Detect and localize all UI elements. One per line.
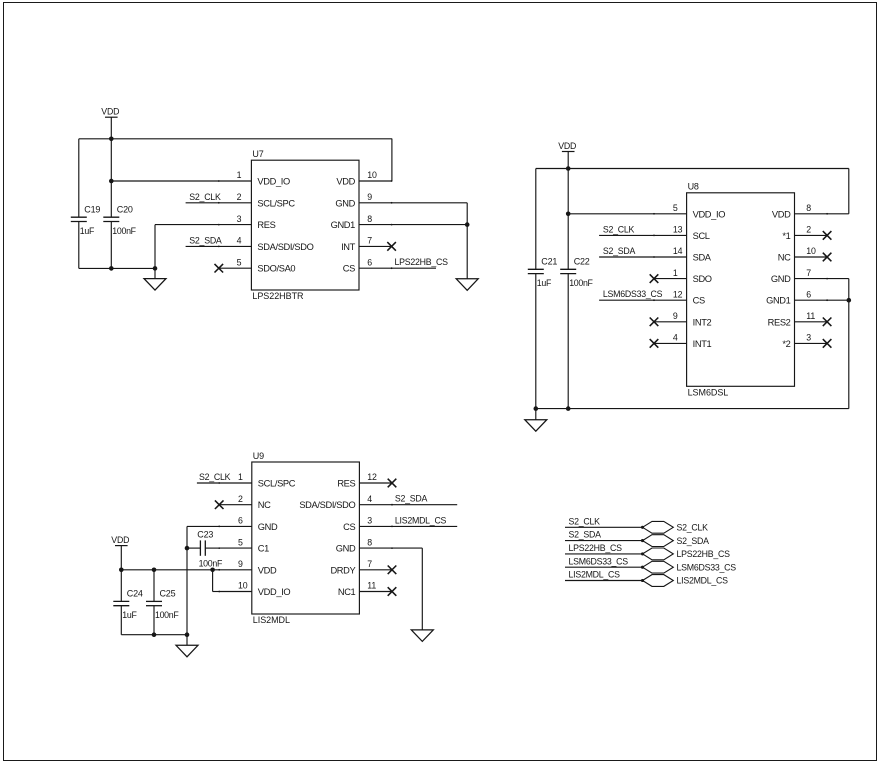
svg-text:8: 8 (367, 537, 372, 547)
no-connect X on U9 pin 2 NC (215, 500, 224, 509)
U9 pin 10 VDD_IO (218, 581, 290, 597)
wire GND bottom rail (79, 267, 155, 269)
junction GND rail / ground (185, 632, 190, 637)
svg-text:1uF: 1uF (537, 278, 552, 288)
svg-text:VDD: VDD (772, 209, 791, 219)
U7 pin 10 VDD (336, 170, 392, 186)
capacitor C19 (71, 217, 87, 221)
svg-text:11: 11 (806, 311, 815, 321)
U8 pin 5 VDD_IO (653, 203, 725, 219)
IC U9 (LIS2MDL) body (252, 462, 360, 614)
svg-text:LPS22HB_CS: LPS22HB_CS (395, 257, 449, 267)
svg-text:100nF: 100nF (199, 559, 223, 569)
junction GND rail / ground (534, 406, 539, 411)
capacitor C22 (560, 269, 576, 273)
U8 pin 2 *1 (782, 225, 827, 241)
svg-text:LIS2MDL: LIS2MDL (253, 615, 290, 625)
U8 pin 8 VDD (772, 203, 828, 219)
wire net LSM6DS33_CS (565, 566, 643, 568)
junction VDD rail / C20 branch (109, 137, 114, 142)
svg-text:LSM6DS33_CS: LSM6DS33_CS (569, 556, 629, 566)
no-connect X on U8 pin 2 *1 (823, 231, 832, 240)
capacitor C20 (103, 217, 119, 221)
svg-text:C23: C23 (197, 530, 213, 540)
junction GND rail / C25 (152, 632, 157, 637)
svg-text:100nF: 100nF (155, 610, 179, 620)
U8 pin 3 *2 (782, 333, 827, 349)
svg-text:3: 3 (367, 516, 372, 526)
svg-text:C25: C25 (160, 589, 176, 599)
svg-text:S2_CLK: S2_CLK (569, 516, 601, 526)
svg-text:SDO/SA0: SDO/SA0 (257, 264, 295, 274)
U8 pin 4 INT1 (654, 333, 712, 349)
wire C25 top lead (153, 570, 155, 602)
no-connect X on U9 pin 12 RES (388, 479, 397, 488)
svg-text:S2_CLK: S2_CLK (199, 472, 231, 482)
svg-text:INT2: INT2 (693, 317, 712, 327)
svg-text:LPS22HB_CS: LPS22HB_CS (569, 543, 623, 553)
wire C21 top lead (535, 169, 537, 270)
junction GND pins 6/7 (847, 298, 852, 303)
svg-text:7: 7 (367, 236, 372, 246)
wire net S2_CLK (565, 526, 643, 528)
svg-text:13: 13 (673, 225, 683, 235)
svg-text:12: 12 (367, 472, 377, 482)
svg-text:9: 9 (367, 192, 372, 202)
svg-text:S2_SDA: S2_SDA (395, 494, 428, 504)
off-page connector LPS22HB_CS (643, 548, 731, 560)
junction VDD_IO branch (109, 179, 114, 184)
wire net S2_CLK (197, 482, 219, 484)
svg-text:DRDY: DRDY (330, 565, 355, 575)
wire VDD stem (567, 152, 569, 169)
svg-text:LSM6DSL: LSM6DSL (688, 388, 729, 398)
svg-text:2: 2 (238, 494, 243, 504)
wire end dot (641, 539, 644, 542)
svg-text:1uF: 1uF (122, 610, 137, 620)
junction C23 left (185, 546, 190, 551)
svg-text:1: 1 (237, 170, 242, 180)
svg-text:NC: NC (258, 500, 271, 510)
svg-text:C22: C22 (574, 257, 590, 267)
wire C25 bottom lead (153, 606, 155, 635)
svg-text:8: 8 (806, 203, 811, 213)
no-connect X on U7 pin 5 (215, 264, 224, 273)
U8 pin 6 GND1 (766, 289, 828, 305)
U9 pin 7 DRDY (330, 559, 392, 575)
U7 pin 3 RES (218, 214, 276, 230)
svg-text:GND: GND (335, 198, 355, 208)
U8 pin 10 NC (778, 246, 827, 262)
svg-text:4: 4 (673, 333, 678, 343)
wire C20 top lead (110, 139, 112, 217)
wire VDD stem (110, 117, 112, 139)
junction VDD / C24 (119, 568, 124, 573)
no-connect X on U8 pin 1 SDO (650, 274, 659, 283)
wire RES drop to GND (154, 225, 156, 269)
wire C23 left lead (187, 547, 200, 549)
svg-text:SCL: SCL (693, 231, 710, 241)
wire C24 top lead (120, 570, 122, 602)
U8 pin 9 INT2 (654, 311, 712, 327)
wire net GND pin 7 (827, 278, 849, 280)
svg-text:11: 11 (367, 581, 376, 591)
svg-text:C21: C21 (541, 257, 557, 267)
wire C19 top lead (78, 139, 80, 217)
svg-text:LIS2MDL_CS: LIS2MDL_CS (395, 515, 447, 525)
U8 pin 11 RES2 (768, 311, 827, 327)
wire net LPS22HB_CS (392, 267, 436, 269)
capacitor C23 (200, 540, 205, 555)
U7 pin 9 GND (335, 192, 392, 208)
wire net GND pin 8 (392, 547, 422, 549)
no-connect X on U7 pin 7 INT (387, 242, 396, 251)
wire net S2_CLK (599, 234, 654, 236)
off-page connector S2_SDA (643, 535, 710, 547)
svg-text:C24: C24 (127, 589, 143, 599)
svg-text:NC1: NC1 (338, 587, 356, 597)
wire VDD stem (120, 546, 122, 570)
no-connect X on U8 pin 9 INT2 (650, 318, 659, 327)
wire net LIS2MDL_CS (565, 580, 643, 582)
svg-text:4: 4 (367, 494, 372, 504)
svg-text:GND1: GND1 (331, 220, 356, 230)
wire net LIS2MDL_CS (392, 525, 457, 527)
ground (U9 right) (411, 630, 433, 642)
svg-text:3: 3 (237, 214, 242, 224)
svg-text:U8: U8 (688, 182, 699, 192)
wire VDD_IO drop (212, 570, 214, 592)
wire net GND pin 6 (827, 299, 849, 301)
wire net S2_SDA (186, 245, 219, 247)
wire C24 bottom lead (120, 606, 122, 635)
svg-text:*1: *1 (782, 231, 790, 241)
svg-text:5: 5 (673, 203, 678, 213)
U9 pin 4 SDA/SDI/SDO (299, 494, 393, 510)
junction GND rail / C20 (109, 266, 114, 271)
wire C21 bottom lead (535, 274, 537, 409)
wire net VDD to U7 pin 1 (111, 180, 219, 182)
junction GND rail / ground (153, 266, 158, 271)
U7 pin 8 GND1 (331, 214, 393, 230)
U8 pin 14 SDA (653, 246, 712, 262)
no-connect X on U9 pin 7 DRDY (388, 566, 397, 575)
U9 pin 8 GND (336, 537, 393, 553)
svg-text:S2_CLK: S2_CLK (603, 224, 635, 234)
wire VDD riser (391, 139, 393, 181)
svg-text:SDA/SDI/SDO: SDA/SDI/SDO (299, 500, 355, 510)
wire net LSM6DS33_CS (599, 299, 654, 301)
wire net S2_CLK (186, 202, 219, 204)
svg-text:SDA: SDA (693, 253, 712, 263)
no-connect X on U8 pin 11 RES2 (823, 318, 832, 327)
svg-text:VDD: VDD (558, 141, 576, 151)
svg-text:GND1: GND1 (766, 296, 791, 306)
no-connect X on U8 pin 3 *2 (823, 339, 832, 348)
svg-text:2: 2 (237, 192, 242, 202)
svg-text:S2_SDA: S2_SDA (677, 536, 710, 546)
svg-text:C19: C19 (84, 204, 100, 214)
svg-text:LIS2MDL_CS: LIS2MDL_CS (677, 576, 729, 586)
U7 pin 5 SDO/SA0 (219, 257, 296, 273)
svg-text:4: 4 (237, 236, 242, 246)
svg-text:LPS22HBTR: LPS22HBTR (252, 291, 304, 301)
U8 pin 13 SCL (653, 225, 710, 241)
svg-text:GND: GND (771, 274, 791, 284)
svg-text:2: 2 (806, 225, 811, 235)
junction GND pins 8/9 (465, 222, 470, 227)
U8 pin 12 CS (653, 289, 705, 305)
svg-text:12: 12 (673, 289, 683, 299)
svg-text:RES: RES (337, 479, 355, 489)
power symbol VDD (U9 section) (111, 535, 129, 546)
power symbol VDD (U7 section) (101, 107, 119, 118)
junction C25 top (152, 568, 157, 573)
svg-text:VDD: VDD (258, 565, 277, 575)
U9 pin 9 VDD (218, 559, 277, 575)
svg-text:LPS22HB_CS: LPS22HB_CS (677, 549, 731, 559)
power symbol VDD (U8 section) (558, 141, 576, 152)
wire GND bottom rail (121, 634, 187, 636)
wire VDD riser (848, 169, 850, 214)
svg-text:5: 5 (238, 537, 243, 547)
svg-text:S2_SDA: S2_SDA (189, 235, 222, 245)
svg-text:6: 6 (806, 289, 811, 299)
svg-text:LSM6DS33_CS: LSM6DS33_CS (603, 289, 663, 299)
svg-text:RES2: RES2 (768, 317, 791, 327)
wire net GND pin 8 (392, 224, 468, 226)
svg-text:LSM6DS33_CS: LSM6DS33_CS (677, 562, 737, 572)
svg-text:S2_CLK: S2_CLK (189, 192, 221, 202)
U9 pin 5 C1 (218, 537, 269, 553)
svg-text:8: 8 (367, 214, 372, 224)
U8 pin 1 SDO (654, 268, 712, 284)
wire GND drop (421, 548, 423, 630)
capacitor C24 (113, 601, 129, 605)
wire net S2_SDA (565, 540, 643, 542)
junction VDD_IO branch (210, 568, 215, 573)
svg-text:VDD_IO: VDD_IO (257, 177, 290, 187)
U7 pin 6 CS (343, 257, 393, 273)
svg-text:1: 1 (673, 268, 678, 278)
svg-text:7: 7 (367, 559, 372, 569)
svg-text:CS: CS (343, 522, 355, 532)
svg-text:CS: CS (693, 296, 705, 306)
svg-text:100nF: 100nF (112, 226, 136, 236)
off-page connector LIS2MDL_CS (643, 575, 729, 587)
svg-text:VDD: VDD (111, 535, 129, 545)
svg-text:GND: GND (336, 544, 356, 554)
wire VDD top rail (79, 138, 392, 140)
no-connect X on U8 pin 10 NC (823, 253, 832, 262)
wire C22 top lead (567, 169, 569, 270)
svg-text:S2_SDA: S2_SDA (569, 530, 602, 540)
svg-text:10: 10 (806, 246, 816, 256)
svg-text:VDD: VDD (101, 107, 119, 117)
svg-text:GND: GND (258, 522, 278, 532)
svg-text:10: 10 (367, 170, 377, 180)
wire ground stem (186, 635, 188, 646)
svg-text:SDO: SDO (693, 274, 712, 284)
svg-text:7: 7 (806, 268, 811, 278)
svg-text:6: 6 (238, 516, 243, 526)
U9 pin 2 NC (219, 494, 271, 510)
svg-text:SDA/SDI/SDO: SDA/SDI/SDO (257, 242, 313, 252)
svg-text:1uF: 1uF (80, 226, 95, 236)
svg-text:C1: C1 (258, 544, 269, 554)
wire net VDD to U9 pin 9 (121, 569, 219, 571)
wire net VDD to U8 pin 5 (568, 213, 654, 215)
wire ground stem (154, 268, 156, 278)
wire end dot (641, 566, 644, 569)
svg-text:LIS2MDL_CS: LIS2MDL_CS (569, 570, 621, 580)
capacitor C21 (528, 269, 544, 273)
svg-text:NC: NC (778, 253, 791, 263)
junction VDD rail / C22 branch (566, 166, 571, 171)
U9 pin 12 RES (337, 472, 392, 488)
U7 pin 2 SCL/SPC (218, 192, 295, 208)
off-page connector LSM6DS33_CS (643, 561, 737, 573)
svg-text:CS: CS (343, 264, 355, 274)
svg-text:SCL/SPC: SCL/SPC (258, 479, 296, 489)
svg-text:VDD_IO: VDD_IO (258, 587, 291, 597)
IC U7 (LPS22HBTR) body (251, 160, 359, 290)
svg-text:INT1: INT1 (693, 339, 712, 349)
U8 pin 7 GND (771, 268, 828, 284)
svg-text:S2_CLK: S2_CLK (677, 523, 709, 533)
wire end dot (641, 579, 644, 582)
U9 pin 6 GND (218, 516, 278, 532)
no-connect X on U8 pin 4 INT1 (650, 339, 659, 348)
U7 pin 7 INT (341, 236, 392, 252)
wire C20 bottom lead (110, 222, 112, 269)
wire net GND pin 6 (187, 525, 219, 527)
wire C19 bottom lead (78, 222, 80, 269)
junction GND rail / C22 (566, 406, 571, 411)
svg-text:SCL/SPC: SCL/SPC (257, 198, 295, 208)
U7 pin 1 VDD_IO (218, 170, 290, 186)
wire net VDD_IO (213, 591, 220, 593)
ground (U7 right) (456, 279, 478, 291)
svg-text:9: 9 (673, 311, 678, 321)
svg-text:14: 14 (673, 246, 683, 256)
svg-text:RES: RES (257, 220, 275, 230)
ground (U8) (525, 420, 547, 432)
svg-text:S2_SDA: S2_SDA (603, 246, 636, 256)
svg-text:VDD_IO: VDD_IO (693, 209, 726, 219)
wire VDD top rail (536, 168, 849, 170)
svg-text:U9: U9 (253, 451, 264, 461)
wire C23 right lead (205, 547, 219, 549)
wire net LPS22HB_CS (565, 553, 643, 555)
svg-text:VDD: VDD (336, 177, 355, 187)
wire GND drop (186, 526, 188, 634)
U9 pin 3 CS (343, 516, 393, 532)
svg-text:6: 6 (367, 257, 372, 267)
wire GND bottom rail (536, 408, 849, 410)
wire GND drop (848, 279, 850, 409)
off-page connector S2_CLK (643, 521, 709, 533)
svg-text:5: 5 (237, 257, 242, 267)
svg-text:100nF: 100nF (569, 278, 593, 288)
capacitor C25 (146, 601, 162, 605)
U7 pin 4 SDA/SDI/SDO (218, 236, 314, 252)
svg-text:C20: C20 (117, 204, 133, 214)
svg-text:1: 1 (238, 472, 243, 482)
svg-text:*2: *2 (782, 339, 790, 349)
wire net S2_SDA (599, 256, 654, 258)
svg-text:INT: INT (341, 242, 356, 252)
no-connect X on U9 pin 11 NC1 (388, 587, 397, 596)
svg-text:U7: U7 (252, 149, 263, 159)
svg-text:3: 3 (806, 333, 811, 343)
svg-text:10: 10 (238, 581, 248, 591)
wire GND drop (466, 203, 468, 279)
ground (U7 left) (144, 279, 166, 291)
ground (U9 left) (176, 645, 198, 657)
junction VDD_IO branch (566, 212, 571, 217)
U9 pin 11 NC1 (338, 581, 392, 597)
wire C22 bottom lead (567, 274, 569, 409)
wire net GND pin 9 (392, 202, 468, 204)
svg-text:9: 9 (238, 559, 243, 569)
wire end dot (641, 552, 644, 555)
wire net RES to U7 pin 3 (155, 224, 219, 226)
wire ground stem (535, 409, 537, 420)
wire net S2_SDA (392, 504, 457, 506)
wire end dot (641, 526, 644, 529)
IC U8 (LSM6DSL) body (687, 193, 795, 386)
wire net VDD pin 8 (827, 213, 849, 215)
U9 pin 1 SCL/SPC (218, 472, 295, 488)
